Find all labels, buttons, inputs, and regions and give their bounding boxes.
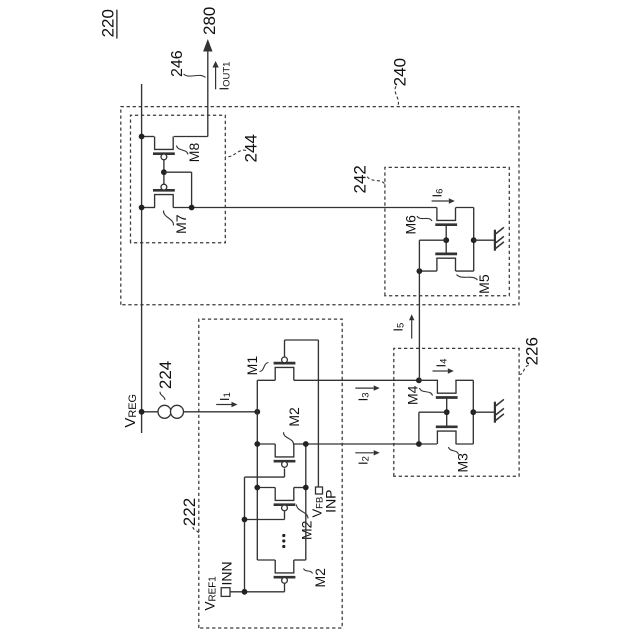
dashed box 244 (M7/M8 current mirror): [131, 115, 226, 243]
svg-text:INN: INN: [219, 561, 235, 585]
svg-text:224: 224: [156, 361, 175, 389]
current arrow I4: [433, 368, 454, 373]
label M4: [405, 385, 421, 405]
wire amplifier tail rail: [256, 380, 258, 560]
label IOUT1: [217, 62, 233, 91]
leader for M6: [417, 216, 432, 221]
svg-text:M2: M2: [312, 568, 328, 588]
svg-text:280: 280: [200, 7, 219, 35]
wire M7/M8 common gate: [163, 160, 165, 185]
wire M2/M3 column (I2 net): [257, 443, 473, 445]
leader for M4: [420, 388, 433, 396]
label I5: [390, 323, 406, 332]
wire M5/M6 common source: [473, 208, 475, 272]
label VREF1: [203, 576, 219, 611]
wire M7 source: [142, 207, 155, 209]
wire M7 drain to M6 drain: [173, 207, 437, 209]
current arrow IOUT1: [212, 61, 218, 89]
leader for M3: [449, 447, 459, 455]
wire VREG rail: [141, 84, 143, 433]
label 246: [169, 50, 186, 77]
label I4: [434, 359, 450, 368]
svg-text:240: 240: [390, 58, 409, 86]
leader for 246: [184, 74, 206, 78]
node M7/M8 gate junction: [161, 169, 167, 175]
leader for 240: [395, 86, 399, 106]
node VREG rail / current source junction: [139, 409, 145, 415]
label 226: [523, 337, 542, 365]
label I2: [356, 456, 372, 465]
dashed box 226 (M3/M4 current mirror): [394, 348, 519, 476]
current source 224 (two circles): [158, 405, 184, 418]
label VREG: [122, 394, 139, 428]
svg-text:222: 222: [180, 498, 199, 526]
svg-text:220: 220: [98, 9, 117, 37]
label I3: [356, 392, 372, 401]
label 242: [351, 165, 370, 193]
wire M1 gate to INP: [285, 340, 319, 487]
current arrow I5: [409, 314, 414, 338]
terminal INP/VFB square: [316, 487, 323, 494]
leader for M1: [260, 363, 269, 372]
ground symbol 226: [495, 399, 504, 422]
wire M2-2 gate: [245, 511, 285, 519]
dashed box 222 (amplifier): [199, 319, 342, 628]
leader for M5: [457, 275, 478, 281]
wire M2 drain bus: [305, 444, 307, 560]
svg-text:INP: INP: [323, 489, 339, 512]
svg-text:242: 242: [351, 165, 370, 193]
wire M4 column: [419, 379, 473, 381]
transistor M1: [274, 357, 296, 380]
node VREG/M7 junction: [139, 205, 145, 211]
wire M6 source segment: [456, 207, 474, 209]
transistor M3: [436, 427, 458, 444]
transistor M7: [153, 184, 175, 207]
wire M3/M4 common gate: [446, 398, 448, 427]
current arrow I3: [355, 385, 379, 390]
label M1: [244, 356, 260, 376]
label M7: [173, 214, 189, 234]
node I1 tail junction: [254, 409, 260, 415]
svg-text:M8: M8: [186, 143, 202, 163]
ground symbol 242: [495, 227, 504, 250]
wire I5 (M4 drain to M5 drain): [418, 271, 420, 380]
node M5/M6 gate junction: [443, 237, 449, 243]
node INN/gate bus junction: [242, 589, 248, 595]
dashed box 240 (output stage): [121, 107, 519, 305]
leader for 226: [520, 366, 529, 375]
label 222: [180, 498, 199, 526]
svg-text:M4: M4: [405, 385, 421, 405]
wire gate to M5 drain (diode tap): [419, 240, 446, 271]
node M2-2 gate junction: [242, 517, 248, 523]
wire M2-1 gate: [245, 468, 285, 477]
leader for M8: [177, 146, 189, 155]
svg-text:M3: M3: [455, 453, 471, 473]
label INN: [219, 561, 235, 585]
label 280: [200, 7, 219, 35]
node source/ground junction 226: [470, 409, 476, 415]
ellipsis dots between M2s: [282, 534, 285, 548]
node M3 drain diode junction: [416, 441, 422, 447]
transistor M2 (third): [274, 560, 296, 583]
current arrow I6: [432, 198, 455, 203]
wire M2 third column: [257, 559, 306, 561]
svg-text:M7: M7: [173, 214, 189, 234]
node M7 drain diode junction: [189, 205, 195, 211]
label M2 first: [286, 407, 302, 427]
node source/ground junction 242: [471, 237, 477, 243]
label M8: [186, 143, 202, 163]
label M6: [402, 215, 418, 235]
label 240: [390, 58, 409, 86]
leader for M2 first: [283, 432, 293, 444]
node M5 drain junction: [417, 268, 423, 274]
wire M2 second column: [257, 487, 306, 489]
current arrow I2: [355, 450, 379, 455]
svg-text:M1: M1: [244, 356, 260, 376]
wire M1 source/drain column (I3): [257, 379, 419, 381]
dashed box 242 (M5/M6 current mirror): [385, 167, 509, 295]
node M3/M4 gate junction: [444, 409, 450, 415]
current arrow I1: [216, 402, 237, 407]
label M5: [476, 274, 492, 294]
transistor M5: [435, 254, 457, 271]
svg-text:M2: M2: [286, 407, 302, 427]
wire to ground 226: [473, 411, 495, 413]
label I6: [430, 189, 446, 198]
label 220 underlined: [98, 9, 117, 39]
transistor M4: [436, 380, 458, 397]
wire gate to M3 drain (diode tap): [419, 412, 447, 444]
wire M5/M6 common gate: [445, 225, 447, 254]
terminal INN square: [221, 588, 230, 597]
label 224: [156, 361, 175, 389]
transistor M2 (first): [274, 444, 296, 467]
label M3: [455, 453, 471, 473]
node VREG/M8 junction: [139, 134, 145, 140]
node I3/I5/M4 drain junction: [416, 377, 422, 383]
label 244: [241, 134, 260, 162]
leader for M2 third: [304, 569, 313, 574]
wire M3/M4 common source: [472, 380, 474, 444]
wire M5 column: [419, 270, 473, 272]
svg-text:244: 244: [241, 134, 260, 162]
leader for 224: [160, 392, 165, 400]
leader for 242: [367, 177, 385, 185]
leader for 222: [193, 527, 199, 534]
transistor M2 (second): [274, 488, 296, 511]
svg-text:226: 226: [523, 337, 542, 365]
wire INN to M2-3 gate: [230, 584, 285, 592]
wire M8 source column: [142, 136, 208, 138]
svg-text:246: 246: [169, 50, 186, 77]
wire gate to M7 drain (diode tap): [164, 172, 192, 207]
label VFB: [310, 497, 326, 518]
label M2 second: [298, 520, 314, 540]
label I1: [217, 392, 233, 401]
leader for 244: [226, 150, 246, 157]
svg-text:M6: M6: [402, 215, 418, 235]
wire to ground 242: [474, 239, 495, 241]
wire output with arrow 280: [203, 39, 212, 137]
node M2-2 drain junction: [303, 485, 309, 491]
wire from VREG rail to current source: [142, 411, 258, 413]
node rail/M2-2 junction: [254, 485, 260, 491]
label INP: [323, 489, 339, 512]
svg-text:M5: M5: [476, 274, 492, 294]
transistor M8: [153, 137, 175, 160]
leader for M2 second: [297, 505, 309, 519]
leader for M7: [163, 211, 173, 226]
label M2 third: [312, 568, 328, 588]
node M2-1 drain junction: [303, 441, 309, 447]
transistor M6: [435, 208, 457, 225]
wire M2 common gate bus: [244, 477, 246, 592]
node rail/M2-1 junction: [254, 441, 260, 447]
